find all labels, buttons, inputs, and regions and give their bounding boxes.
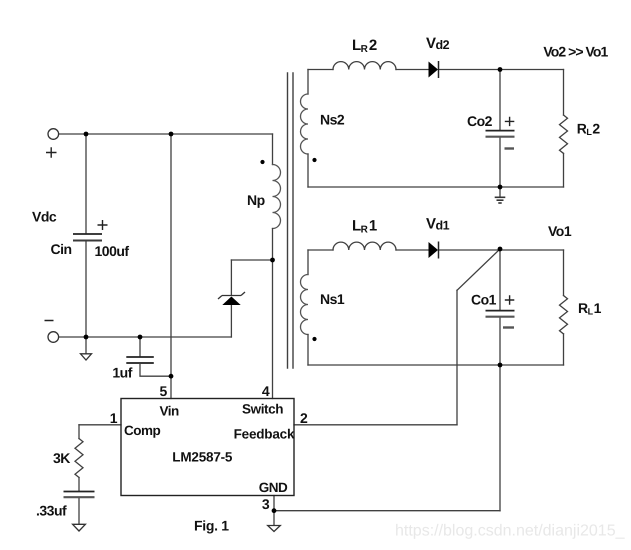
- svg-text:1: 1: [110, 410, 118, 426]
- svg-text:4: 4: [262, 383, 270, 399]
- svg-text:Vd1: Vd1: [426, 215, 450, 232]
- svg-text:RL1: RL1: [578, 300, 602, 317]
- svg-text:Co1: Co1: [471, 292, 497, 308]
- svg-text:LR1: LR1: [352, 217, 377, 235]
- svg-text:Cin: Cin: [51, 241, 72, 257]
- svg-text:Comp: Comp: [124, 423, 160, 438]
- svg-text:Vdc: Vdc: [32, 209, 57, 225]
- svg-text:GND: GND: [259, 480, 288, 495]
- svg-text:Switch: Switch: [242, 401, 283, 416]
- svg-text:Vin: Vin: [160, 404, 180, 419]
- svg-text:Fig. 1: Fig. 1: [194, 517, 229, 533]
- svg-text:Vo2 >> Vo1: Vo2 >> Vo1: [543, 44, 608, 60]
- svg-text:RL2: RL2: [577, 121, 601, 138]
- svg-text:LM2587-5: LM2587-5: [172, 450, 233, 465]
- svg-text:Vd2: Vd2: [426, 35, 450, 52]
- svg-text:LR2: LR2: [352, 37, 377, 55]
- svg-text:1uf: 1uf: [112, 365, 132, 381]
- svg-text:3K: 3K: [53, 450, 70, 466]
- svg-text:Np: Np: [247, 192, 265, 208]
- svg-text:https://blog.csdn.net/dianji20: https://blog.csdn.net/dianji2015_: [395, 523, 626, 540]
- svg-text:Feedback: Feedback: [234, 426, 295, 441]
- svg-text:Vo1: Vo1: [548, 223, 572, 239]
- svg-text:100uf: 100uf: [95, 243, 130, 259]
- svg-text:5: 5: [160, 383, 168, 399]
- svg-text:Ns2: Ns2: [320, 112, 345, 128]
- svg-text:Ns1: Ns1: [320, 291, 345, 307]
- svg-text:2: 2: [300, 410, 308, 426]
- svg-text:.33uf: .33uf: [36, 503, 67, 519]
- svg-text:Co2: Co2: [467, 113, 493, 129]
- svg-text:3: 3: [262, 496, 270, 512]
